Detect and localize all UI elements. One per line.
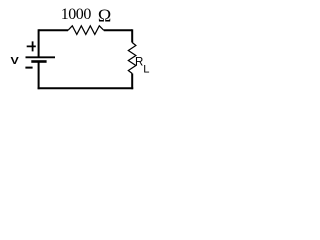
wire left vertical lower segment (battery - to corner) [38,63,40,90]
wire top-right horizontal segment [104,29,132,31]
resistor RL zigzag (right, vertical) [128,43,136,74]
svg-text:L: L [143,64,149,76]
svg-text:V: V [11,55,19,67]
wire left vertical upper segment (corner to battery +) [38,29,40,56]
wire right vertical upper segment [131,29,133,42]
svg-text:1000: 1000 [61,6,92,23]
battery V positive plate (long) [26,56,56,58]
battery V negative plate (short thick) [31,60,46,63]
svg-text:R: R [135,56,143,68]
wire bottom horizontal segment [38,87,134,89]
resistor R1 1000 ohm zigzag (top) [68,26,104,35]
wire top-left horizontal segment [39,29,68,31]
plus sign [27,41,36,51]
svg-text:Ω: Ω [98,5,111,25]
wire right vertical lower segment [131,74,133,90]
minus sign [25,67,32,69]
